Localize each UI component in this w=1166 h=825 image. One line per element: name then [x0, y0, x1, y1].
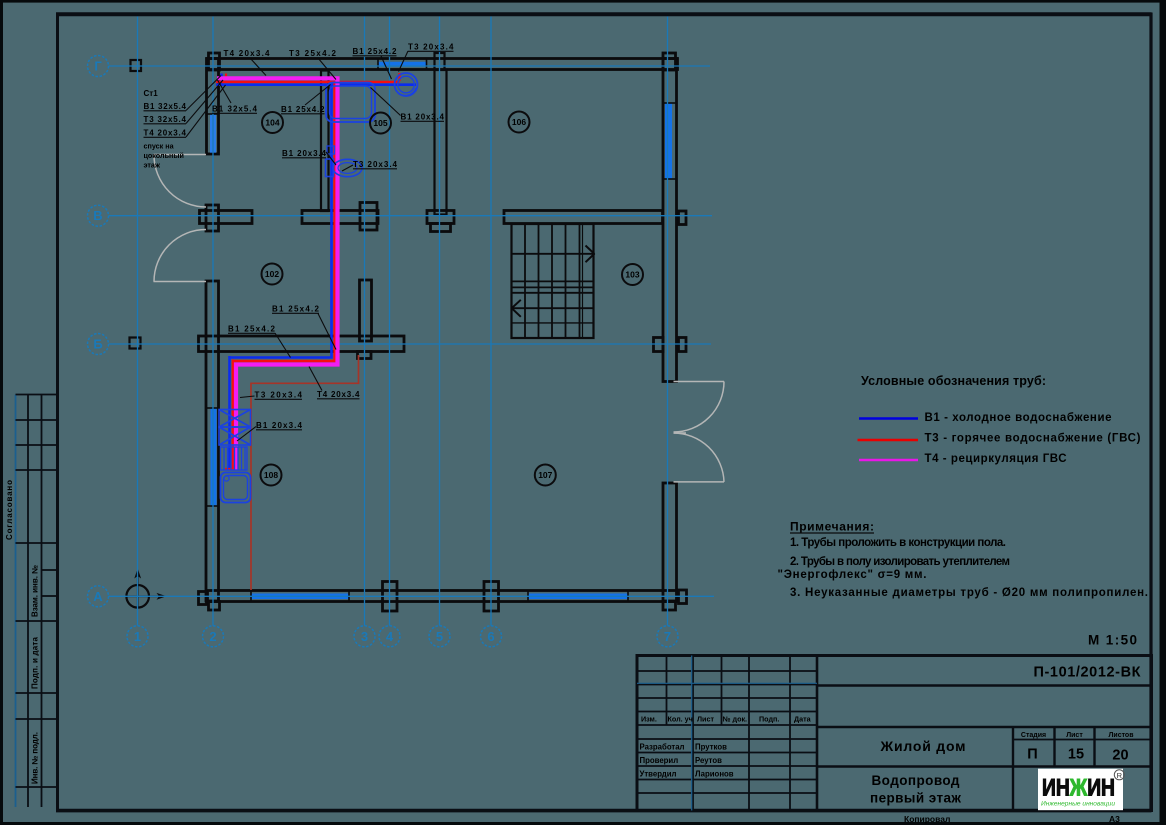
svg-text:Согласовано: Согласовано: [5, 480, 14, 540]
svg-text:ИНЖИН: ИНЖИН: [1042, 775, 1115, 802]
wall: top exterior: [208, 59, 678, 70]
svg-text:2: 2: [209, 629, 216, 644]
title block outer box: [637, 656, 1152, 811]
wall: В bar at rooms 102/103: [427, 211, 454, 224]
svg-text:А3: А3: [1109, 814, 1120, 824]
svg-text:В1 20х3.4: В1 20х3.4: [256, 421, 303, 430]
wall: top-left corner stub: [209, 53, 220, 70]
legend line Т4: [859, 459, 918, 461]
left stamp rotated labels: [5, 480, 40, 784]
svg-text:Изм.: Изм.: [641, 715, 657, 724]
wall: Б axis wall: [199, 336, 405, 352]
legend line В1: [859, 417, 918, 419]
svg-text:20: 20: [1112, 748, 1128, 764]
svg-text:2. Трубы в полу изолировать ут: 2. Трубы в полу изолировать утеплителем: [790, 556, 1010, 568]
toilet in room 105: [326, 146, 363, 177]
wall: divider 105/106 top stub: [435, 53, 445, 70]
title block signature rows: [640, 743, 734, 779]
window: left wall lower: [211, 408, 217, 506]
sink in room 105: [326, 83, 375, 123]
svg-text:Т4 20х3.4: Т4 20х3.4: [224, 49, 271, 58]
svg-text:П: П: [1027, 747, 1037, 763]
svg-text:Жилой дом: Жилой дом: [880, 738, 966, 754]
left riser labels: [144, 89, 187, 138]
wall: right exterior lower: [663, 483, 677, 601]
mid-plan labels: [212, 105, 445, 431]
pipe Т3 hot water (red) main run: [216, 73, 400, 469]
north arrow heads: [134, 569, 141, 579]
wall: В-wall stub on right wall: [679, 211, 687, 225]
svg-text:Ст1: Ст1: [144, 89, 159, 98]
wall: left jamb at axis В: [206, 205, 219, 231]
axis circles numbers: [127, 626, 678, 647]
wall: top-right corner stub: [663, 53, 676, 70]
svg-text:А: А: [93, 589, 103, 604]
window end ticks: [207, 60, 676, 602]
sink in room 108: [221, 473, 251, 503]
wall: stub below Б at axis 3: [358, 352, 372, 359]
washer boxes with X in room 108: [219, 410, 251, 446]
svg-text:Дата: Дата: [794, 715, 812, 724]
title block right section lines: [817, 686, 1151, 811]
svg-text:Лист: Лист: [1066, 732, 1083, 739]
pipe В1 cold water (blue) main run: [216, 85, 416, 468]
wall: right exterior upper: [663, 59, 677, 382]
svg-text:В1 32х5.4: В1 32х5.4: [144, 102, 187, 111]
room circle 108: [261, 465, 282, 486]
svg-text:"Энергофлекс" σ=9 мм.: "Энергофлекс" σ=9 мм.: [778, 569, 927, 581]
svg-text:№ док.: № док.: [723, 715, 748, 724]
svg-text:Подп. и дата: Подп. и дата: [31, 636, 40, 689]
svg-text:В1 25х4.2: В1 25х4.2: [272, 305, 320, 314]
room circle 106: [509, 112, 530, 133]
svg-text:R: R: [1117, 771, 1123, 780]
wall: bottom-right corner stubs: [663, 602, 676, 611]
wall: left exterior lower: [206, 281, 219, 601]
axis circles letters: [88, 56, 109, 607]
svg-text:Условные обозначения труб:: Условные обозначения труб:: [861, 374, 1046, 388]
svg-text:Утвердил: Утвердил: [640, 770, 677, 779]
window: top wall: [378, 62, 427, 67]
svg-text:Стадия: Стадия: [1021, 732, 1046, 739]
wall: В axis left bar: [200, 211, 253, 224]
svg-text:Т3 20х3.4: Т3 20х3.4: [353, 160, 398, 169]
grid axis vertical lines 1-7: [138, 17, 668, 626]
svg-text:первый этаж: первый этаж: [870, 791, 961, 806]
legend line Т3: [858, 439, 919, 441]
svg-text:Т4 20х3.4: Т4 20х3.4: [317, 390, 360, 399]
svg-text:5: 5: [436, 629, 443, 644]
svg-text:107: 107: [538, 470, 552, 480]
svg-text:Т4 - рециркуляция ГВС: Т4 - рециркуляция ГВС: [925, 453, 1067, 465]
wall: bottom-left corner stubs: [199, 592, 207, 605]
room number circles: [261, 112, 644, 486]
svg-text:Б: Б: [93, 337, 102, 352]
north coordinate symbol: [126, 572, 163, 608]
svg-text:В1 32х5.4: В1 32х5.4: [212, 105, 258, 114]
svg-text:этаж: этаж: [144, 161, 161, 170]
svg-text:104: 104: [265, 118, 279, 128]
svg-text:Т3 - горячее водоснабжение (ГВ: Т3 - горячее водоснабжение (ГВС): [925, 433, 1141, 445]
svg-text:Примечания:: Примечания:: [790, 520, 874, 534]
svg-text:Разработал: Разработал: [640, 743, 685, 752]
svg-text:Лист: Лист: [697, 715, 714, 724]
svg-text:Т3 20х3.4: Т3 20х3.4: [255, 391, 303, 400]
svg-text:Подп.: Подп.: [759, 715, 779, 724]
outer black page edges: [0, 0, 1166, 3]
svg-text:6: 6: [487, 629, 494, 644]
svg-text:Кол. уч: Кол. уч: [668, 715, 693, 724]
svg-text:Т3 25х4.2: Т3 25х4.2: [289, 49, 337, 58]
logo white box: [1038, 769, 1123, 811]
svg-text:Т3 32х5.4: Т3 32х5.4: [144, 115, 187, 124]
svg-text:3. Неуказанные диаметры труб -: 3. Неуказанные диаметры труб - Ø20 мм по…: [790, 587, 1148, 599]
wall: bottom wall cross at axis 6: [484, 582, 499, 612]
svg-text:Т3 20х3.4: Т3 20х3.4: [408, 43, 454, 52]
svg-text:Т4 20х3.4: Т4 20х3.4: [144, 129, 187, 138]
svg-text:Инв. № подл.: Инв. № подл.: [31, 732, 40, 784]
svg-text:В1 - холодное водоснабжение: В1 - холодное водоснабжение: [925, 412, 1112, 424]
svg-text:7: 7: [664, 629, 671, 644]
svg-text:Г: Г: [94, 59, 102, 74]
room circle 103: [622, 264, 643, 285]
wall: bottom exterior: [208, 591, 678, 602]
svg-text:Копировал: Копировал: [904, 814, 950, 824]
window: bottom wall left: [251, 594, 349, 600]
axis labels: [93, 59, 671, 644]
window: left wall upper (riser shaft): [210, 114, 216, 154]
svg-text:15: 15: [1068, 747, 1084, 763]
wall: pier above Б at axis 3: [360, 280, 372, 341]
svg-text:М 1:50: М 1:50: [1088, 633, 1137, 648]
svg-text:В: В: [93, 208, 102, 223]
axis 1 square markers: [130, 60, 142, 349]
wall: divider rooms 105/106: [435, 70, 447, 215]
wall: divider rooms 104/105: [321, 71, 329, 212]
window: bottom wall right: [528, 594, 628, 600]
svg-text:Проверил: Проверил: [640, 756, 679, 765]
left stamp column boxes: [16, 395, 58, 808]
wall: stub below В at axis 3: [360, 203, 377, 231]
boiler in room 105: [395, 73, 418, 96]
svg-text:3: 3: [361, 629, 368, 644]
title block header texts: [641, 715, 812, 724]
svg-text:106: 106: [512, 117, 526, 127]
svg-text:В1 25х4.2: В1 25х4.2: [228, 325, 276, 334]
wall: В axis right segment: [504, 211, 663, 224]
window: right wall: [665, 103, 672, 179]
svg-text:Водопровод: Водопровод: [872, 773, 960, 788]
svg-text:Листов: Листов: [1108, 732, 1134, 739]
grid axis horizontal lines А Б В Г: [109, 66, 715, 596]
wall: bottom wall cross at axis 4: [383, 582, 398, 612]
svg-text:В1 25х4.2: В1 25х4.2: [281, 105, 325, 114]
door: left wall upper leaf: [154, 155, 725, 482]
svg-text:П-101/2012-ВК: П-101/2012-ВК: [1034, 665, 1141, 681]
svg-text:105: 105: [373, 118, 387, 128]
svg-text:108: 108: [264, 470, 278, 480]
riser В1 connection tick (blue): [220, 74, 223, 87]
pipe Т4 recirculation (magenta) main run: [217, 78, 340, 470]
stair arrow up (right): [513, 253, 594, 255]
hatched appliance in room 108: [221, 447, 248, 470]
svg-text:4: 4: [386, 629, 394, 644]
svg-text:Инженерные инновации: Инженерные инновации: [1041, 801, 1115, 808]
stair arrow down (left): [512, 307, 593, 309]
pipe Т3 thin return branch (dark red): [251, 355, 359, 590]
svg-text:1: 1: [134, 629, 141, 644]
svg-text:В1 25х4.2: В1 25х4.2: [353, 47, 398, 56]
svg-text:102: 102: [265, 269, 279, 279]
door: left wall lower leaf: [154, 281, 207, 283]
walls: [199, 53, 687, 611]
svg-text:Ларионов: Ларионов: [695, 770, 734, 779]
stage values: [1027, 747, 1128, 764]
svg-text:спуск на: спуск на: [144, 142, 175, 151]
svg-text:В1 20х3.4: В1 20х3.4: [282, 149, 327, 158]
staircase room 103: [512, 224, 595, 338]
svg-text:103: 103: [625, 270, 639, 280]
svg-text:Прутков: Прутков: [695, 743, 727, 752]
wall: left exterior upper: [207, 59, 219, 155]
svg-text:Взам. инв. №: Взам. инв. №: [31, 565, 40, 617]
svg-text:цокольный: цокольный: [144, 151, 184, 160]
svg-text:В1 20х3.4: В1 20х3.4: [401, 113, 445, 122]
room circle 102: [262, 264, 283, 285]
title block left table lines: [637, 656, 817, 811]
room circle 105: [370, 113, 391, 134]
svg-text:Реутов: Реутов: [695, 756, 722, 765]
door: right wall double leaf: [674, 381, 725, 383]
wall: В axis middle bar: [302, 211, 378, 224]
pipe labels top row: [224, 43, 455, 59]
wall: Б-cross stubs on right wall: [654, 338, 664, 352]
room circle 107: [535, 465, 556, 486]
svg-text:1. Трубы проложить в конструкц: 1. Трубы проложить в конструкции пола.: [790, 537, 1006, 549]
stage header: [1021, 732, 1134, 739]
room circle 104: [262, 112, 283, 133]
